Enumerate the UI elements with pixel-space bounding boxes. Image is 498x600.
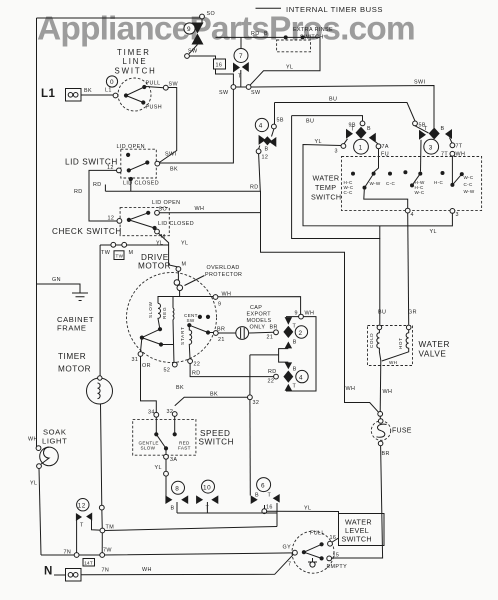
svg-text:32: 32 (253, 400, 260, 406)
svg-text:7N: 7N (64, 550, 72, 556)
svg-text:W-W: W-W (370, 181, 381, 186)
wire contact 7 feed from top line (240, 37, 242, 48)
svg-text:FULL: FULL (310, 531, 325, 537)
svg-text:W-W: W-W (464, 189, 475, 194)
temp contact group W-W (372, 172, 376, 176)
svg-text:7A: 7A (382, 144, 389, 150)
extra rinse switch dashed body (277, 40, 311, 52)
svg-text:YL: YL (430, 229, 437, 235)
timer contact 6 triangles (251, 495, 258, 504)
svg-text:TM: TM (106, 525, 115, 531)
terminal block N (54, 574, 66, 576)
svg-text:YL: YL (155, 465, 162, 471)
timer line switch pivot (124, 93, 128, 97)
svg-text:TW: TW (101, 250, 111, 256)
wire pull to SW node (146, 87, 164, 88)
svg-text:RD: RD (74, 189, 83, 195)
svg-text:SOAK: SOAK (43, 428, 67, 437)
svg-text:WH: WH (195, 206, 205, 212)
svg-text:2: 2 (299, 330, 303, 337)
svg-text:L1: L1 (41, 88, 56, 100)
node 22 (188, 359, 193, 364)
hot valve coil (406, 325, 411, 330)
wire contact 12 right output to TM node (92, 519, 103, 531)
timer contact 3 triangles and diamond (419, 130, 426, 140)
reg coil (173, 297, 174, 365)
wire BU to contact 4 (274, 103, 276, 125)
timer contact 9 triangles (192, 23, 204, 34)
start coil (189, 327, 191, 359)
wire contact 3 left output into temp switch (420, 140, 423, 172)
wire bottom bus to GY (41, 553, 293, 555)
svg-text:BU: BU (378, 310, 386, 316)
svg-text:0: 0 (110, 79, 114, 86)
svg-text:16: 16 (330, 535, 337, 541)
timer contact 6 circled (257, 478, 271, 492)
overload protector circles (177, 271, 179, 280)
wire contact 10 stem (206, 502, 208, 513)
svg-text:21: 21 (267, 335, 274, 341)
svg-text:BK: BK (170, 167, 178, 173)
svg-text:REG: REG (162, 307, 167, 319)
svg-text:LINE: LINE (123, 57, 148, 66)
wire left bus vertical (36, 18, 38, 447)
svg-text:SWITCH: SWITCH (300, 35, 324, 41)
svg-text:GR: GR (408, 310, 417, 316)
timer contact 12 triangles (76, 513, 82, 521)
timer contact 9 circle (184, 23, 195, 34)
ground symbol (72, 293, 88, 301)
wire BK diag and bus (175, 397, 248, 406)
timer line switch dashed circle (118, 78, 151, 111)
svg-text:3: 3 (335, 149, 338, 155)
node 34 (154, 412, 159, 417)
water level switch bellows (308, 558, 317, 562)
node 3 yl (341, 144, 346, 149)
wire WH from check switch to RD vertical (159, 212, 260, 214)
svg-text:WH: WH (28, 437, 38, 443)
svg-text:5B: 5B (277, 118, 284, 124)
svg-text:12: 12 (262, 155, 269, 161)
svg-text:22: 22 (194, 362, 201, 368)
svg-text:YL: YL (286, 65, 293, 71)
svg-text:RD: RD (251, 31, 260, 37)
wire top bus (37, 17, 201, 19)
node 52 (172, 362, 177, 367)
extra rinse switch contacts (284, 35, 288, 39)
svg-text:AppliancePartsPros.com: AppliancePartsPros.com (37, 11, 415, 48)
fuse junction node (378, 412, 383, 417)
svg-text:INTERNAL TIMER BUSS: INTERNAL TIMER BUSS (286, 5, 383, 14)
svg-text:SWITCH: SWITCH (115, 67, 157, 76)
node 5B contact 3 (413, 121, 418, 126)
node SW left (231, 85, 236, 90)
svg-text:OR: OR (142, 363, 151, 369)
svg-text:16: 16 (216, 63, 223, 69)
wire YL bus to full contact (267, 511, 339, 542)
svg-text:T: T (351, 127, 355, 133)
node 32 on BK bus (248, 395, 253, 400)
svg-text:6: 6 (261, 482, 265, 489)
wire TM down to 7W (101, 533, 103, 555)
svg-text:RD: RD (93, 182, 102, 188)
svg-text:SWITCH: SWITCH (311, 193, 341, 202)
svg-text:C-C: C-C (464, 182, 473, 187)
soak light lamp (40, 447, 59, 466)
wire extra rinse top line (216, 37, 321, 85)
svg-text:3: 3 (429, 145, 433, 152)
circled 0 above timer line switch (106, 76, 117, 87)
wire BU top line (275, 103, 416, 122)
wire SW down to lid switch (159, 88, 176, 163)
svg-text:B: B (293, 340, 297, 346)
svg-text:B: B (171, 506, 175, 512)
svg-text:YL: YL (156, 241, 163, 247)
svg-text:7N: 7N (102, 568, 110, 574)
svg-text:FAST: FAST (178, 446, 191, 451)
svg-text:PUSH: PUSH (146, 105, 163, 111)
timer contact 1 triangles and diamond (346, 129, 353, 139)
terminal block L1 (66, 89, 82, 102)
svg-text:B: B (265, 147, 269, 153)
timer contact 7 triangles (233, 63, 240, 73)
svg-text:EMPTY: EMPTY (327, 564, 348, 570)
svg-text:3A: 3A (170, 457, 177, 463)
svg-text:MODELS: MODELS (247, 318, 272, 324)
timer contact 1 circled (354, 139, 369, 154)
timer contact 2 circled (295, 326, 307, 338)
wire valve to fuse (379, 361, 382, 412)
svg-text:52: 52 (164, 368, 171, 374)
svg-text:BU: BU (329, 97, 337, 103)
timer line switch push contact (141, 100, 145, 104)
svg-text:HOT: HOT (398, 338, 403, 350)
wire fuse down to empty contact (332, 446, 383, 558)
svg-text:RD: RD (192, 371, 201, 377)
check switch dashed box (120, 208, 169, 236)
svg-text:SWI: SWI (414, 80, 425, 86)
water valve dashed box (368, 326, 413, 366)
wire contact 12 left output to 7N (76, 519, 78, 555)
wire BK from SW vertical to SWI (160, 89, 234, 163)
svg-text:SW: SW (169, 82, 179, 88)
svg-text:TIMER: TIMER (58, 352, 86, 361)
timer contact 4b circled (296, 370, 308, 382)
svg-text:SW: SW (187, 318, 195, 323)
node 7A (376, 144, 381, 149)
svg-text:8: 8 (175, 486, 179, 493)
svg-text:9: 9 (295, 311, 298, 317)
wire SO drop (201, 19, 203, 23)
svg-text:BR: BR (382, 451, 390, 457)
box 14T (83, 559, 95, 567)
capacitor (218, 332, 240, 334)
temp contact H-C (441, 171, 445, 175)
svg-text:B: B (367, 126, 371, 132)
wire node SW right then down (189, 56, 233, 85)
svg-text:MOTOR: MOTOR (58, 365, 91, 374)
svg-text:EXTRA RINSE: EXTRA RINSE (293, 27, 333, 33)
wire TW down to timer motor (99, 245, 101, 376)
svg-text:15: 15 (333, 553, 340, 559)
node WH 7T (450, 151, 455, 156)
svg-text:WH: WH (383, 389, 393, 395)
svg-text:14T: 14T (84, 561, 93, 566)
cold valve coil (377, 325, 382, 330)
wire between SW nodes (236, 86, 246, 88)
svg-text:T: T (238, 74, 242, 80)
timer contact 4b triangles and diamond (285, 362, 293, 369)
svg-text:ONLY: ONLY (250, 325, 266, 331)
wire 5B into contact 4 (272, 129, 274, 137)
wire contact9 to node (189, 45, 198, 54)
svg-text:12: 12 (108, 216, 115, 222)
svg-text:9: 9 (218, 302, 221, 308)
node BR 21 at contact 2 (274, 330, 279, 335)
svg-text:31: 31 (132, 357, 139, 363)
svg-text:BR: BR (217, 327, 225, 333)
temp contact group C-C (388, 172, 392, 176)
svg-text:WATER: WATER (313, 174, 340, 183)
svg-text:L1: L1 (105, 88, 112, 94)
timer contact 7 circle (234, 49, 248, 63)
svg-text:16: 16 (266, 505, 273, 511)
wire RD 22 to contact 4 (190, 364, 274, 377)
wire 12 down to RD line (259, 154, 261, 192)
svg-text:YL: YL (181, 241, 188, 247)
wire N line to water level switch (81, 555, 293, 575)
water level switch dashed circle (292, 531, 334, 573)
svg-text:32: 32 (167, 409, 174, 415)
svg-text:SLOW: SLOW (141, 446, 156, 451)
svg-text:B: B (255, 493, 259, 499)
slow contact dot (158, 327, 162, 331)
timer contact 2 triangles and diamond (285, 317, 293, 325)
timer contact 4 triangles (259, 135, 266, 145)
speed switch contacts (156, 416, 174, 434)
node SO (200, 14, 205, 19)
temp contact group middle (403, 170, 407, 174)
wire BU 9B line (292, 116, 363, 121)
wire soak light to bottom bus YL (39, 469, 41, 556)
timer contact 10 circled (202, 480, 215, 493)
wire motor coil bus (158, 296, 214, 298)
svg-text:B: B (264, 31, 268, 37)
svg-text:7: 7 (288, 562, 291, 568)
svg-text:B: B (293, 367, 297, 373)
svg-text:TEMP: TEMP (315, 183, 336, 192)
svg-text:1: 1 (359, 145, 363, 152)
wire contact 8 10 bus (177, 512, 277, 514)
svg-text:SW: SW (251, 90, 261, 96)
node 31 (138, 352, 143, 357)
svg-text:7W: 7W (103, 548, 112, 554)
wire YL jog at cold drop (379, 226, 381, 239)
wire 7A into temp switch (374, 149, 379, 172)
svg-text:22: 22 (268, 379, 275, 385)
svg-text:FUSE: FUSE (392, 428, 412, 435)
svg-text:COLD: COLD (369, 333, 374, 348)
svg-text:CHECK SWITCH: CHECK SWITCH (52, 227, 122, 236)
wire YL from node 3 (303, 145, 452, 226)
svg-text:VALVE: VALVE (419, 350, 447, 359)
lid switch SWI node (155, 161, 160, 166)
svg-text:SW: SW (219, 90, 229, 96)
svg-text:4: 4 (259, 123, 263, 130)
wire timer motor down to TM (101, 404, 103, 531)
svg-text:PULL: PULL (146, 81, 161, 87)
node TM (100, 528, 105, 533)
wire 7T down to temp contact (451, 156, 453, 183)
box 16 on wire (214, 59, 226, 69)
node 16 (262, 509, 267, 514)
timer contact 3 circled (424, 139, 439, 154)
water temp switch dashed box (342, 157, 482, 211)
svg-text:SLOW: SLOW (148, 301, 153, 318)
node 9B (360, 121, 365, 126)
node 5B contact 4 (272, 124, 277, 129)
lid switch pivot and blade (127, 168, 131, 172)
svg-text:BU: BU (306, 119, 314, 125)
timer contact 8 circled (172, 481, 185, 494)
svg-text:TIMER: TIMER (117, 48, 151, 57)
water level switch label box (339, 514, 385, 546)
wire M to motor YL (159, 233, 179, 267)
svg-text:RD: RD (268, 369, 277, 375)
svg-text:W-C: W-C (464, 175, 474, 180)
svg-text:GN: GN (52, 277, 61, 283)
svg-text:T: T (293, 384, 297, 390)
speed switch dashed box (133, 419, 196, 455)
wire BK zigzag to contacts 2 and 4 (250, 349, 288, 395)
timer contact 12 circle (77, 499, 89, 511)
svg-text:3: 3 (456, 212, 459, 218)
svg-text:EXPORT: EXPORT (247, 312, 272, 318)
svg-text:SWI: SWI (165, 152, 176, 158)
svg-text:B: B (441, 126, 445, 132)
water level switch pivot (293, 550, 298, 555)
wire contact 6 T down to TM bus (276, 503, 278, 527)
timer contact 10 triangles (196, 495, 203, 504)
svg-text:34: 34 (148, 410, 155, 416)
node 32 speed (172, 412, 177, 417)
timer motor coil (98, 383, 101, 399)
temp contact group 1 (351, 172, 355, 176)
timer contact 4 circled (255, 118, 268, 131)
node SW right (246, 85, 251, 90)
svg-text:WH: WH (389, 360, 397, 365)
svg-text:WATER: WATER (419, 340, 450, 349)
water level switch empty contact (327, 556, 332, 561)
wire contact 7 stem down (240, 70, 242, 87)
node BR 21 to capacitor (213, 331, 218, 336)
timer contact 8 triangles (165, 495, 172, 504)
svg-text:BK: BK (210, 392, 218, 398)
svg-text:BR: BR (270, 325, 278, 331)
lid switch dashed box (121, 149, 157, 178)
svg-text:H-C: H-C (434, 180, 443, 185)
svg-text:YL: YL (304, 506, 311, 512)
wire WH to cap box (218, 297, 301, 315)
drive motor dashed circle (127, 273, 217, 363)
svg-text:LID CLOSED: LID CLOSED (123, 181, 159, 187)
reg contact dot (159, 342, 163, 346)
node 4 temp (405, 208, 410, 213)
svg-text:W-C: W-C (415, 190, 425, 195)
wire YL 3A down (165, 459, 167, 471)
node WH motor (213, 295, 218, 300)
wire TW line (100, 244, 169, 246)
wire L1 to switch (81, 94, 113, 96)
node 3A (164, 454, 169, 459)
temp contact right group (450, 183, 454, 187)
svg-text:7: 7 (239, 53, 243, 60)
svg-text:WH: WH (305, 311, 315, 317)
wire overload to coil bus (179, 291, 181, 297)
timer line switch pull contact (142, 85, 146, 89)
svg-text:RD: RD (250, 185, 259, 191)
svg-text:10: 10 (203, 484, 211, 491)
lid switch lid closed contact (129, 177, 133, 181)
wire TM bus right (105, 527, 277, 531)
svg-text:SO: SO (207, 11, 216, 17)
node 3 temp (450, 209, 455, 214)
node 7T (450, 143, 455, 148)
svg-text:C-C: C-C (344, 190, 353, 195)
svg-text:SO: SO (159, 207, 168, 213)
svg-text:OVERLOAD: OVERLOAD (207, 265, 240, 271)
svg-text:SWITCH: SWITCH (342, 535, 372, 544)
wire 31 to 34 (141, 356, 157, 412)
svg-text:WH: WH (346, 386, 356, 392)
box TW (114, 251, 124, 260)
svg-text:T: T (80, 523, 84, 529)
svg-text:4: 4 (411, 212, 414, 218)
fuse (379, 416, 381, 419)
svg-text:TW: TW (116, 254, 124, 259)
contacts 2 and 4 box (286, 317, 316, 391)
check switch pivot and blades (127, 218, 131, 222)
svg-text:9: 9 (187, 26, 191, 33)
svg-text:7T: 7T (456, 144, 463, 150)
legend internal timer buss line (256, 7, 282, 9)
wire GR node 4 to hot valve (408, 213, 409, 325)
wire SWI long line to contact 3 (251, 86, 434, 129)
svg-text:M: M (129, 250, 134, 256)
svg-text:N: N (44, 566, 53, 578)
wire BK down to contact 6 (249, 400, 251, 496)
svg-text:4: 4 (299, 374, 303, 381)
svg-text:LID CLOSED: LID CLOSED (158, 221, 194, 227)
timer motor circle (87, 378, 113, 404)
svg-text:LID OPEN: LID OPEN (152, 200, 180, 206)
node 7W (100, 553, 105, 558)
svg-text:SWITCH: SWITCH (199, 438, 235, 447)
svg-text:BK: BK (84, 88, 92, 94)
svg-text:YL: YL (30, 481, 37, 487)
svg-text:YL: YL (315, 139, 322, 145)
svg-text:C-C: C-C (386, 181, 395, 186)
node 7N (74, 553, 79, 558)
svg-text:LIGHT: LIGHT (42, 437, 67, 446)
wire RD net lid closed to timer 4-12 (105, 191, 378, 412)
wire contact 8 stem (176, 502, 178, 513)
svg-text:BK: BK (176, 385, 184, 391)
svg-text:WH: WH (142, 567, 152, 573)
wire BU down to cold valve (292, 116, 380, 325)
ground cabinet frame wire (37, 284, 81, 293)
svg-text:GY: GY (283, 545, 292, 551)
